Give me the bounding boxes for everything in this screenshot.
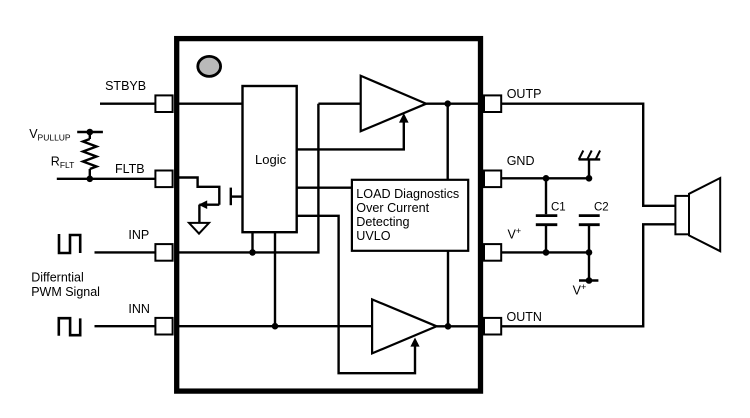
svg-text:UVLO: UVLO <box>356 229 390 243</box>
svg-text:C1: C1 <box>551 201 566 213</box>
svg-text:C2: C2 <box>594 201 609 213</box>
svg-text:GND: GND <box>507 154 535 168</box>
svg-text:FLTB: FLTB <box>115 162 145 176</box>
svg-text:OUTN: OUTN <box>507 310 542 324</box>
svg-text:PWM Signal: PWM Signal <box>31 285 100 299</box>
svg-text:LOAD Diagnostics: LOAD Diagnostics <box>356 187 459 201</box>
svg-text:Differntial: Differntial <box>31 270 84 284</box>
svg-text:INP: INP <box>128 228 149 242</box>
svg-text:Logic: Logic <box>255 152 287 167</box>
svg-text:OUTP: OUTP <box>507 87 542 101</box>
svg-text:INN: INN <box>128 302 150 316</box>
svg-text:STBYB: STBYB <box>105 79 146 93</box>
svg-text:Detecting: Detecting <box>356 215 409 229</box>
svg-text:Over Current: Over Current <box>356 201 429 215</box>
